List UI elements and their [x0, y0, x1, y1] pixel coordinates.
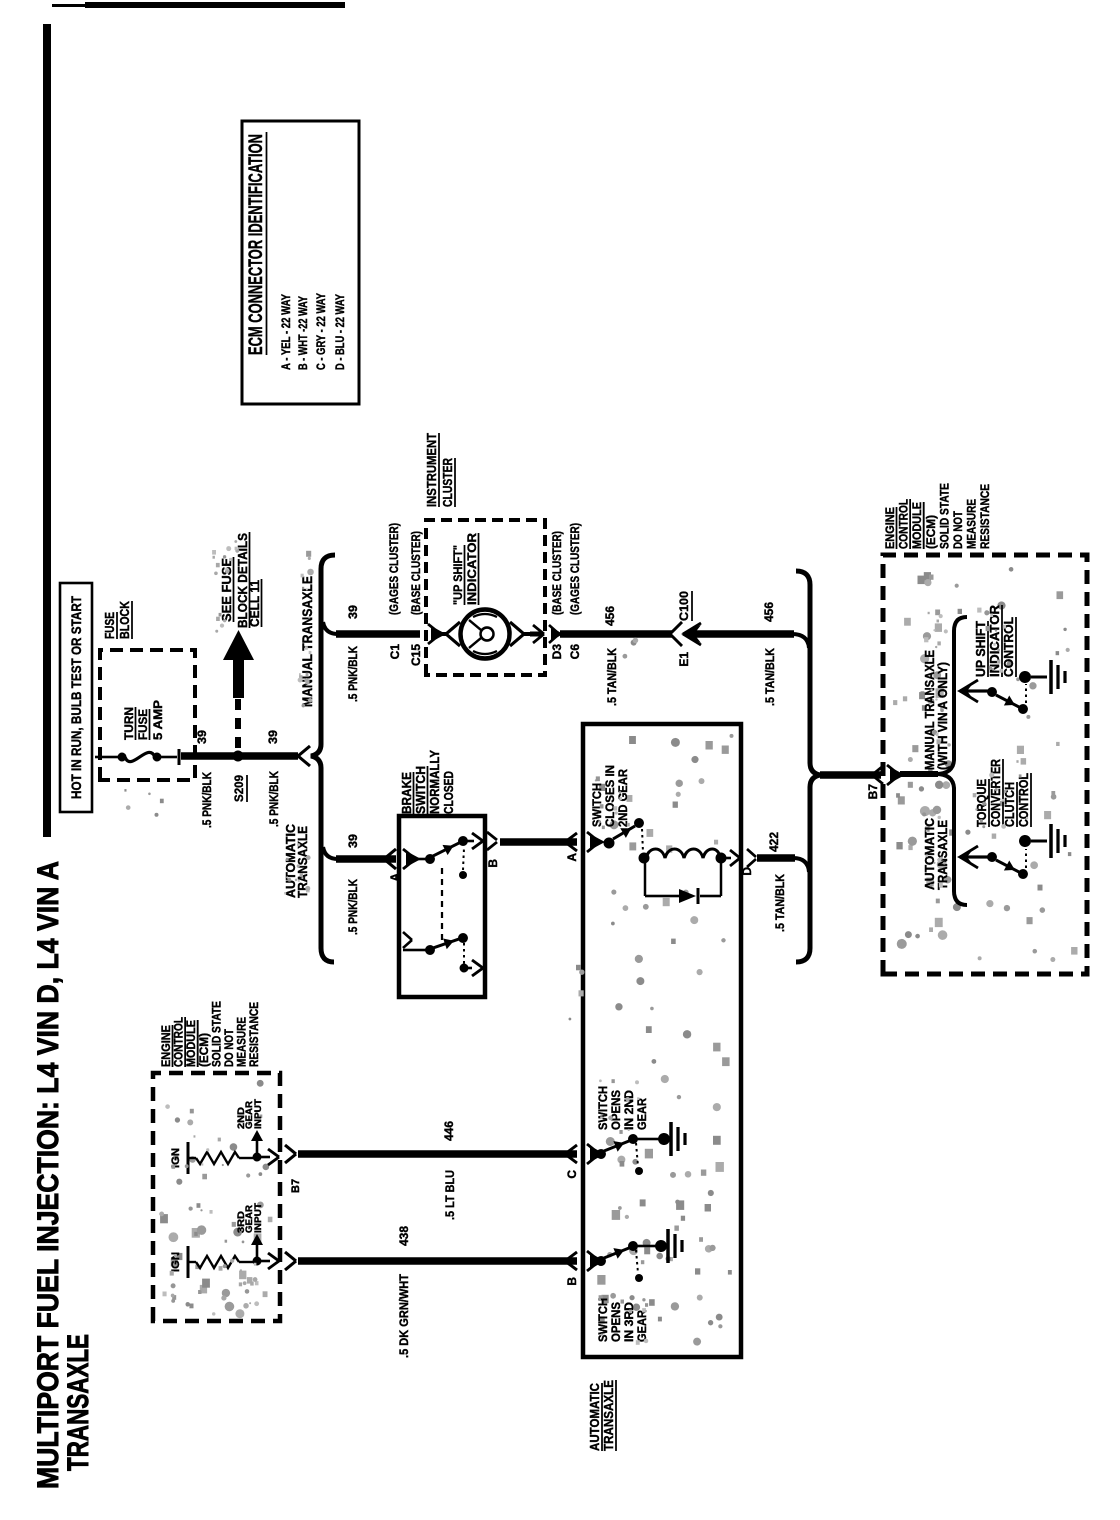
- svg-text:C - GRY - 22 WAY: C - GRY - 22 WAY: [316, 293, 328, 370]
- svg-text:.5 PNK/BLK: .5 PNK/BLK: [200, 772, 214, 828]
- svg-text:HOT IN RUN, BULB TEST OR START: HOT IN RUN, BULB TEST OR START: [68, 596, 84, 799]
- svg-text:MODULE: MODULE: [910, 502, 924, 549]
- svg-text:SOLID STATE: SOLID STATE: [937, 483, 951, 549]
- svg-text:(BASE CLUSTER): (BASE CLUSTER): [550, 531, 564, 615]
- svg-text:RESISTANCE: RESISTANCE: [247, 1002, 261, 1067]
- svg-text:MANUAL TRANSAXLE: MANUAL TRANSAXLE: [923, 650, 937, 770]
- svg-text:FUSE: FUSE: [102, 612, 117, 639]
- svg-text:CONTROL: CONTROL: [1017, 773, 1031, 827]
- svg-text:E1: E1: [677, 652, 691, 667]
- svg-text:456: 456: [603, 606, 617, 626]
- svg-text:CELL 11: CELL 11: [247, 580, 262, 627]
- svg-text:(GAGES CLUSTER): (GAGES CLUSTER): [387, 523, 401, 615]
- svg-text:C6: C6: [568, 644, 582, 660]
- svg-text:SWITCH: SWITCH: [413, 766, 428, 814]
- svg-text:.5 TAN/BLK: .5 TAN/BLK: [605, 648, 619, 706]
- svg-text:CONVERTER: CONVERTER: [989, 759, 1003, 827]
- svg-text:NORMALLY: NORMALLY: [427, 750, 442, 814]
- svg-text:.5 LT BLU: .5 LT BLU: [443, 1170, 457, 1220]
- svg-text:INPUT: INPUT: [253, 1202, 263, 1233]
- svg-text:CLUSTER: CLUSTER: [440, 458, 455, 507]
- svg-text:(WITH VIN A ONLY): (WITH VIN A ONLY): [936, 662, 950, 770]
- svg-text:ENGINE: ENGINE: [883, 507, 897, 549]
- svg-text:456: 456: [762, 602, 776, 622]
- svg-text:D: D: [740, 867, 754, 876]
- svg-text:MULTIPORT FUEL INJECTION: L4 V: MULTIPORT FUEL INJECTION: L4 VIN D, L4 V…: [32, 861, 65, 1489]
- svg-text:2ND GEAR: 2ND GEAR: [616, 769, 630, 827]
- svg-text:INDICATOR: INDICATOR: [465, 533, 479, 605]
- svg-text:A: A: [565, 853, 579, 862]
- svg-text:B: B: [486, 859, 500, 868]
- svg-text:BLOCK: BLOCK: [117, 600, 132, 639]
- svg-text:TURN: TURN: [122, 707, 136, 740]
- svg-text:422: 422: [767, 832, 781, 852]
- svg-text:(ECM): (ECM): [924, 515, 938, 549]
- svg-text:C100: C100: [677, 591, 691, 621]
- svg-text:AUTOMATIC: AUTOMATIC: [587, 1382, 602, 1451]
- svg-text:C15: C15: [409, 644, 423, 666]
- svg-text:"UP SHIFT": "UP SHIFT": [451, 545, 465, 605]
- svg-text:SWITCH: SWITCH: [596, 1086, 610, 1130]
- svg-text:ECM CONNECTOR IDENTIFICATION: ECM CONNECTOR IDENTIFICATION: [246, 134, 267, 355]
- svg-text:39: 39: [266, 730, 280, 744]
- svg-text:.5 PNK/BLK: .5 PNK/BLK: [346, 879, 360, 935]
- svg-text:TRANSAXLE: TRANSAXLE: [601, 1380, 616, 1451]
- svg-text:B - WHT -22 WAY: B - WHT -22 WAY: [298, 296, 310, 370]
- svg-text:IN 2ND: IN 2ND: [622, 1090, 636, 1130]
- svg-text:CONTROL: CONTROL: [897, 499, 911, 549]
- svg-text:TRANSAXLE: TRANSAXLE: [62, 1334, 95, 1471]
- svg-text:MEASURE: MEASURE: [965, 499, 979, 549]
- svg-text:S209: S209: [232, 775, 246, 802]
- svg-text:39: 39: [346, 834, 360, 848]
- svg-text:AUTOMATIC: AUTOMATIC: [923, 818, 937, 890]
- svg-text:BRAKE: BRAKE: [399, 772, 414, 814]
- svg-text:.5 PNK/BLK: .5 PNK/BLK: [267, 771, 281, 827]
- svg-text:TRANSAXLE: TRANSAXLE: [936, 820, 950, 890]
- svg-text:CLUTCH: CLUTCH: [1003, 782, 1017, 827]
- svg-text:A - YEL - 22 WAY: A - YEL - 22 WAY: [281, 294, 293, 370]
- svg-text:DO NOT: DO NOT: [951, 510, 965, 549]
- svg-text:GEAR: GEAR: [635, 1098, 649, 1130]
- svg-text:.5 TAN/BLK: .5 TAN/BLK: [763, 648, 777, 706]
- svg-text:B: B: [565, 1277, 579, 1286]
- svg-text:(BASE CLUSTER): (BASE CLUSTER): [409, 531, 423, 615]
- svg-text:.5 TAN/BLK: .5 TAN/BLK: [773, 874, 787, 932]
- svg-text:C1: C1: [388, 644, 402, 660]
- svg-text:.5 PNK/BLK: .5 PNK/BLK: [346, 646, 360, 702]
- svg-text:CLOSES IN: CLOSES IN: [603, 765, 617, 827]
- svg-text:INPUT: INPUT: [253, 1098, 263, 1129]
- svg-text:FUSE: FUSE: [136, 709, 150, 740]
- svg-text:5 AMP: 5 AMP: [151, 700, 165, 740]
- svg-text:(GAGES CLUSTER): (GAGES CLUSTER): [568, 523, 582, 615]
- svg-text:IN 3RD: IN 3RD: [622, 1302, 636, 1342]
- svg-text:C: C: [565, 1170, 579, 1179]
- svg-text:CLOSED: CLOSED: [441, 771, 456, 814]
- svg-text:SEE FUSE: SEE FUSE: [219, 558, 234, 622]
- svg-text:MANUAL TRANSAXLE: MANUAL TRANSAXLE: [299, 576, 315, 707]
- svg-text:446: 446: [442, 1121, 456, 1141]
- svg-text:.5 DK GRN/WHT: .5 DK GRN/WHT: [397, 1273, 411, 1358]
- svg-text:D - BLU - 22 WAY: D - BLU - 22 WAY: [335, 294, 347, 370]
- svg-text:GEAR: GEAR: [635, 1310, 649, 1342]
- svg-text:B7: B7: [290, 1179, 302, 1193]
- svg-text:39: 39: [346, 605, 360, 619]
- svg-text:OPENS: OPENS: [609, 1090, 623, 1130]
- svg-text:39: 39: [195, 730, 209, 744]
- svg-text:D3: D3: [550, 644, 564, 660]
- svg-text:B7: B7: [866, 784, 880, 800]
- svg-text:OPENS: OPENS: [609, 1302, 623, 1342]
- svg-text:RESISTANCE: RESISTANCE: [978, 484, 992, 549]
- svg-text:438: 438: [397, 1226, 411, 1246]
- svg-text:INSTRUMENT: INSTRUMENT: [424, 433, 439, 507]
